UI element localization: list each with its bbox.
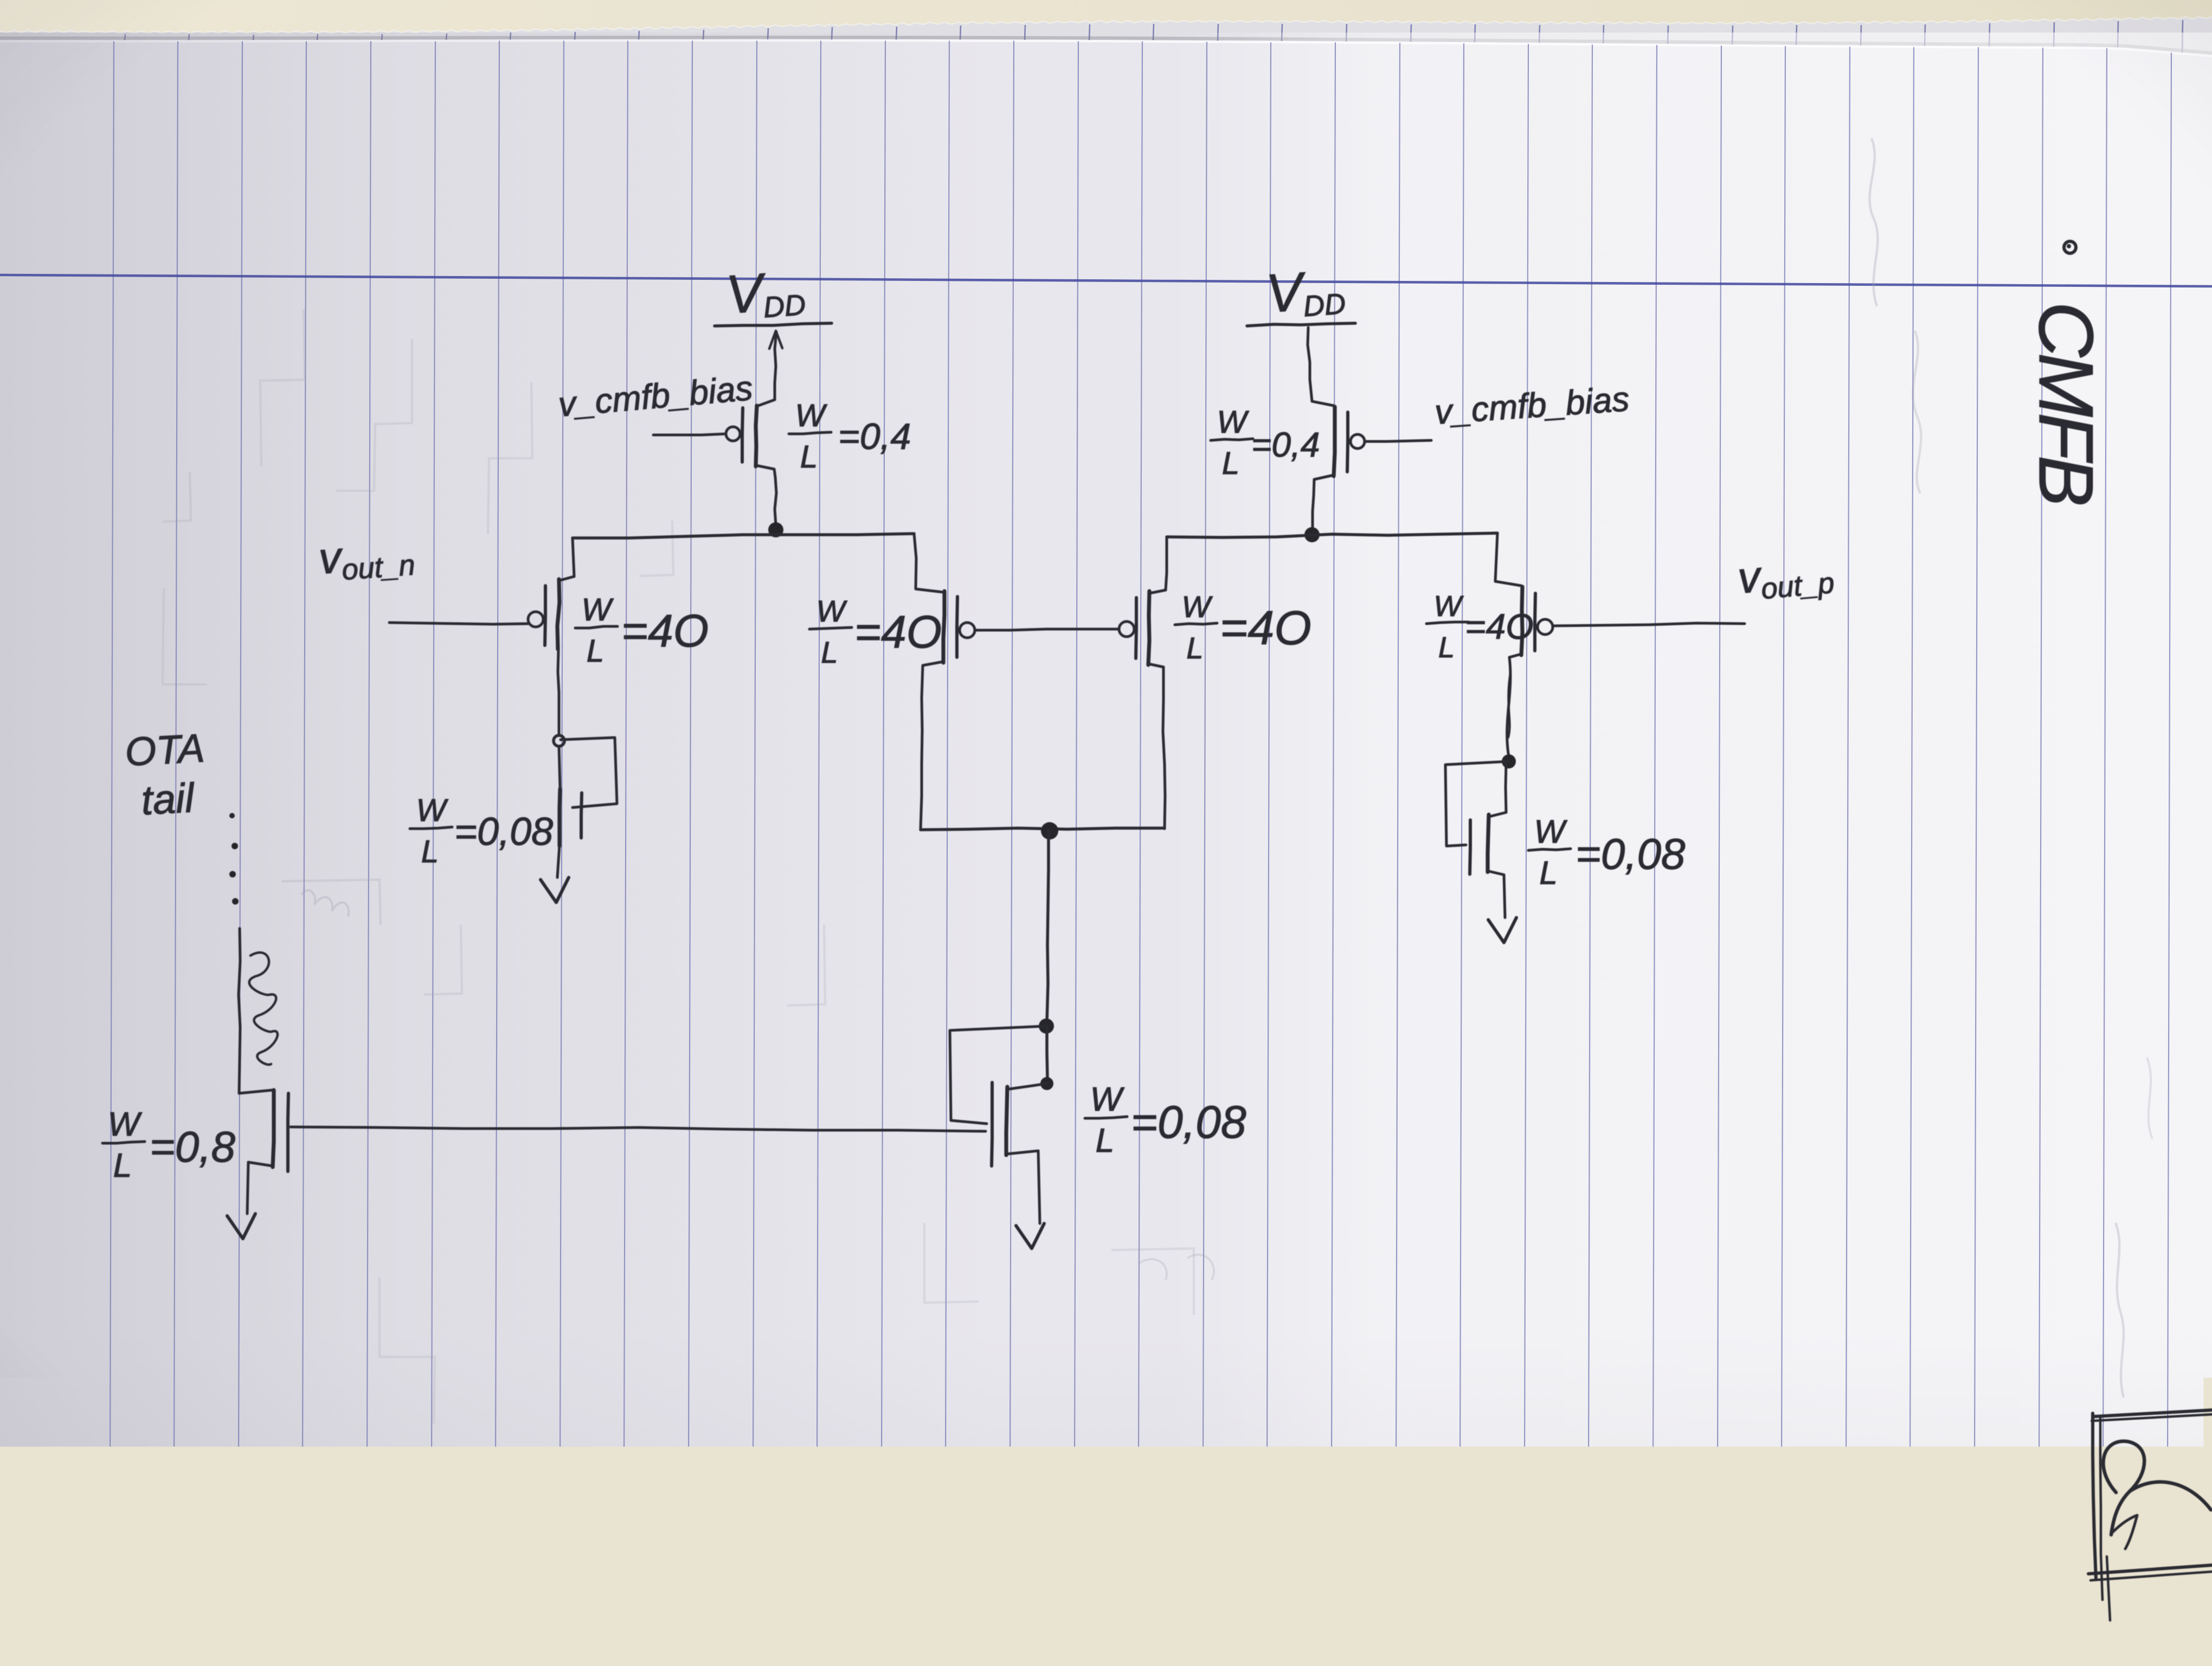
wire M5 gate tie loop [561, 738, 617, 808]
node n2 junction dot [1304, 527, 1320, 542]
label W/L=40 (M4) [1175, 589, 1311, 665]
transistor M6 diode-connected NMOS tail mirror, W/L=0,08 [1009, 1084, 1047, 1089]
wire v_cmfb_bias gate lead (left) [653, 434, 726, 435]
wire M1 drain to node n1 [756, 465, 775, 477]
label W/L=0,08 (M5) [410, 793, 553, 869]
node junction small circle (M2 drain / M5 gate tie) [554, 735, 564, 746]
node n1 junction dot [768, 522, 783, 537]
transistor M9 output PMOS V_out_p, W/L=40 [1495, 533, 1497, 581]
wire drain rail M3-M4 [921, 828, 1165, 830]
wire M3 drain down [923, 662, 943, 665]
scribble on wire [249, 952, 278, 1065]
wire M10 drain to ground [1488, 871, 1504, 875]
wire M8 drain to node n2 [1314, 475, 1334, 479]
wire M7 source to ground [248, 1162, 273, 1166]
wire V_out_n gate lead [389, 623, 528, 624]
node junction dot (tail) [1041, 822, 1058, 840]
wire shared gate M3-M4 [975, 629, 1118, 630]
wire M9 drain down (with pen loop) [1509, 654, 1521, 657]
wire M5 drain to ground [557, 845, 560, 877]
label W/L=0,8 (M7) [102, 1106, 235, 1184]
label W/L=40 (M2) [575, 592, 709, 669]
ground (under M10) [1488, 918, 1516, 943]
wire M6 drain to ground [1006, 1151, 1038, 1154]
wire v_cmfb_bias gate lead (right) [1365, 440, 1431, 441]
label W/L=0,08 (M6) [1085, 1081, 1246, 1159]
node junction dot (M6 drain) [1039, 1018, 1054, 1034]
wire VDD to M1 source (with up arrow) [775, 332, 776, 400]
ground (under M5) [541, 877, 569, 902]
ellipsis dots [232, 843, 238, 849]
wire M10 gate tie loop [1445, 761, 1509, 846]
wire M6 gate tie loop [950, 1026, 1046, 1124]
label W/L=40 (M3) [809, 594, 942, 669]
transistor M7 OTA tail NMOS, W/L=0,8 [239, 1090, 273, 1093]
transistor M10 diode-connected NMOS load, W/L=0,08 [1506, 762, 1506, 812]
transistor M3 PMOS (pair left), W/L=40 [914, 534, 916, 588]
label W/L=0,4 (left) [789, 398, 911, 475]
wire M2 drain down [558, 651, 559, 735]
transistor M4 PMOS (pair right), W/L=40 [1119, 621, 1134, 637]
bullet dot [2064, 241, 2076, 253]
transistor M2 input PMOS V_out_n, W/L=40 [557, 579, 560, 649]
ground (under M7) [227, 1214, 255, 1239]
transistor M1 v_cmfb_bias PMOS (left), W/L=0,4 [756, 406, 757, 466]
wire tail down [1047, 831, 1049, 1022]
wire node rail n1 (sources of M2,M3) [573, 534, 914, 538]
wire long gate line M6 to M7 [291, 1127, 986, 1131]
node junction dot (M9 drain / M10 tie) [1502, 754, 1516, 768]
transistor M8 v_cmfb_bias PMOS (right), W/L=0,4 [1334, 407, 1335, 476]
wire VDD to M8 source [1308, 328, 1310, 380]
wire M7 drain lead up (with scribble) [239, 928, 240, 1093]
wire M4 drain down [1148, 664, 1163, 667]
node junction dot (M6 source attach) [1040, 1077, 1053, 1090]
label W/L=40 (M9) [1426, 590, 1534, 664]
label W/L=0,08 (M10) [1528, 813, 1686, 891]
page number box [2094, 1410, 2212, 1417]
label W/L=0,4 (right) [1211, 405, 1320, 481]
wire V_out_p gate lead [1553, 623, 1745, 626]
wire node rail n2 (sources of M4,M9) [1167, 533, 1497, 537]
transistor M5 diode-connected NMOS load, W/L=0,08 [560, 789, 560, 846]
handwritten page number 2 (rotated) [2103, 1441, 2144, 1535]
ground (under M6) [1016, 1223, 1044, 1248]
